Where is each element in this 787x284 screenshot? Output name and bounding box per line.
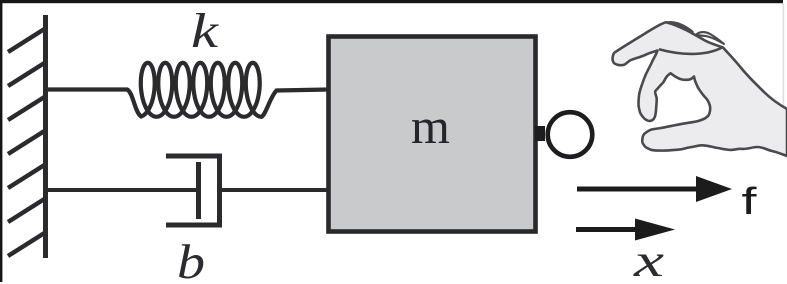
knob stub: [535, 126, 545, 141]
wall hatch 2: [8, 62, 46, 86]
arrow f shaft: [577, 187, 700, 192]
svg-text:f: f: [742, 181, 758, 223]
index base crease: [660, 48, 722, 54]
folded finger wedge A: [668, 22, 693, 32]
folded finger wedge B: [696, 32, 724, 44]
damper cylinder: [166, 156, 220, 225]
damper rod left: [46, 188, 198, 192]
wall hatch 7: [8, 232, 46, 256]
right faint edge: [783, 3, 785, 113]
svg-text:x: x: [633, 235, 665, 284]
svg-text:m: m: [411, 98, 450, 154]
hand: [613, 22, 787, 156]
wall hatch 3: [8, 96, 46, 120]
arrow x shaft: [576, 227, 642, 232]
arrow x head: [635, 219, 675, 241]
damper rod right: [219, 188, 330, 192]
wall hatch 5: [8, 164, 46, 188]
svg-text:b: b: [177, 234, 205, 284]
hand silhouette: [613, 22, 787, 156]
wall hatch 4: [8, 130, 46, 154]
damper piston: [196, 162, 201, 219]
arrow f head: [696, 176, 732, 202]
wall hatch 1: [8, 28, 46, 52]
left border: [0, 0, 2, 282]
knob circle: [548, 112, 593, 157]
spring (coil): [46, 63, 329, 117]
top border: [0, 0, 783, 3]
wall: [43, 15, 48, 258]
mass m block: [329, 37, 536, 232]
wall hatch 6: [8, 198, 46, 222]
svg-text:k: k: [191, 3, 220, 58]
